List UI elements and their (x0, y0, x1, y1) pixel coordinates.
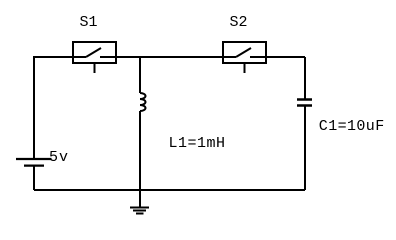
wire capacitor to bottom-right corner (304, 106, 306, 190)
ground (130, 208, 149, 214)
svg-text:5v: 5v (49, 149, 69, 166)
wire bottom junction to ground (139, 190, 141, 207)
inductor L1 (140, 93, 146, 111)
wire top-right vertical to capacitor (304, 57, 306, 99)
wire bottom (34, 189, 305, 191)
svg-text:C1=10uF: C1=10uF (319, 118, 385, 135)
wire battery to bottom-left corner (33, 166, 35, 191)
svg-text:S2: S2 (230, 14, 248, 31)
wire S2 to top-right corner (250, 56, 305, 58)
wire inductor to bottom (139, 111, 141, 190)
wire left vertical down to battery (33, 57, 35, 159)
svg-text:L1=1mH: L1=1mH (169, 135, 226, 152)
battery V1 5v (16, 159, 52, 166)
capacitor C1 (297, 100, 312, 106)
wire top junction to inductor (139, 57, 141, 93)
svg-text:S1: S1 (80, 14, 98, 31)
switch S2 (223, 42, 266, 73)
wire top-left to S1 (33, 56, 86, 58)
switch S1 (73, 42, 116, 73)
wire S1 to S2 (100, 56, 236, 58)
